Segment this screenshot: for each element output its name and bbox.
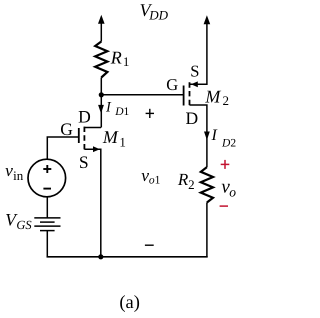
svg-text:(a): (a)	[119, 293, 140, 313]
svg-text:S: S	[190, 61, 199, 80]
svg-text:in: in	[13, 168, 24, 183]
svg-text:2: 2	[188, 177, 195, 192]
svg-text:G: G	[60, 119, 73, 139]
svg-text:D1: D1	[114, 106, 129, 118]
svg-text:M: M	[204, 86, 221, 106]
svg-text:2: 2	[223, 93, 230, 108]
svg-text:D2: D2	[221, 138, 236, 150]
svg-text:R: R	[110, 47, 122, 67]
svg-text:S: S	[79, 152, 89, 172]
svg-text:D: D	[186, 108, 199, 128]
svg-text:o: o	[229, 184, 236, 199]
svg-text:GS: GS	[16, 218, 32, 232]
svg-text:I: I	[211, 127, 218, 144]
svg-text:DD: DD	[148, 8, 168, 23]
svg-text:1: 1	[119, 134, 126, 149]
svg-text:o1: o1	[149, 175, 161, 187]
svg-text:1: 1	[123, 54, 129, 69]
svg-text:G: G	[166, 75, 178, 94]
svg-text:v: v	[5, 160, 13, 180]
svg-text:D: D	[78, 107, 91, 127]
svg-text:M: M	[102, 127, 119, 147]
svg-text:R: R	[177, 170, 189, 189]
svg-text:I: I	[105, 99, 112, 115]
